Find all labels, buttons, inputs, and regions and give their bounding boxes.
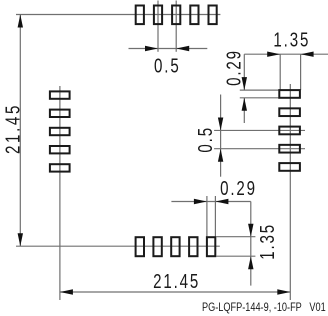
extension line 1.35 bottom lower [216, 255, 255, 257]
pad left 2 [50, 110, 70, 117]
centerline top pad row [16, 14, 220, 16]
arrow 0.29 bottom pointing right [194, 199, 207, 204]
pad right 5 [279, 163, 300, 171]
pad top 3 [172, 6, 180, 25]
extension line 0.29 top upper [240, 89, 279, 91]
dimension line 0.29 top lower segment [243, 98, 245, 123]
pad bottom 1 [136, 237, 144, 256]
centerline bottom pad row [16, 245, 220, 247]
extension line 0.29 bottom right [214, 196, 216, 236]
arrow 1.35 top pointing right [267, 52, 280, 57]
arrow 0.29 bottom pointing left [215, 199, 228, 204]
svg-text:0.29: 0.29 [220, 177, 257, 200]
dimension line 1.35 bottom right [250, 202, 252, 286]
extension line 0.29 bottom left [206, 196, 208, 236]
arrow 1.35 bottom down [248, 224, 253, 237]
svg-text:0.5: 0.5 [154, 54, 181, 77]
pad right 3 [279, 127, 300, 135]
dimension line 21.45 left [19, 15, 21, 247]
pad left 3 [50, 128, 70, 135]
arrow 21.45 bottom pointing left [60, 289, 73, 294]
centerline right pad column [289, 84, 291, 300]
label 1.35 top right [273, 28, 310, 51]
svg-text:21.45: 21.45 [153, 270, 200, 293]
extension line top pad 3 center [175, 1, 177, 52]
pad top 1 [136, 6, 144, 25]
pad top 2 [154, 6, 162, 25]
pad top 5 [209, 6, 217, 25]
footer part name PG-LQFP-144-9, -10-FP V01 [202, 301, 326, 315]
label 0.5 top [154, 54, 181, 77]
arrow 21.45 left down [18, 233, 23, 246]
svg-text:PG-LQFP-144-9, -10-FP V01: PG-LQFP-144-9, -10-FP V01 [202, 301, 326, 315]
dimension line 0.5 right [220, 95, 222, 177]
dimension line 21.45 bottom [60, 291, 290, 293]
pad left 4 [50, 146, 70, 153]
pad bottom 2 [153, 237, 161, 256]
pad left 5 [50, 164, 70, 171]
extension line right pad 3 center [214, 129, 305, 131]
pad top 4 [190, 6, 198, 25]
arrow 0.5 right up [218, 149, 223, 162]
label 0.5 right [194, 126, 217, 153]
pad bottom 5 [207, 237, 215, 256]
extension line 0.29 top lower [240, 97, 279, 99]
pad right 4 [279, 145, 300, 153]
extension line top pad 2 center [157, 1, 159, 52]
arrow 0.5 top pointing right [145, 46, 158, 51]
arrow 21.45 bottom pointing right [277, 289, 290, 294]
pad bottom 4 [189, 237, 197, 256]
label 0.29 bottom [220, 177, 257, 200]
dimension line 1.35 top right [244, 53, 328, 55]
svg-text:0.5: 0.5 [194, 126, 217, 153]
label 21.45 bottom [153, 270, 200, 293]
arrow 0.5 top pointing left [176, 46, 189, 51]
centerline left pad column [59, 86, 61, 300]
arrow 0.29 top down [242, 77, 247, 90]
svg-text:1.35: 1.35 [273, 28, 310, 51]
arrow 0.5 right down [218, 117, 223, 130]
svg-text:1.35: 1.35 [256, 223, 279, 260]
pad left 1 [50, 91, 70, 98]
svg-text:0.29: 0.29 [222, 49, 245, 86]
pad bottom 3 [171, 237, 179, 256]
arrow 1.35 bottom up [248, 256, 253, 269]
dimension line 0.29 bottom [171, 201, 250, 203]
extension line 1.35 bottom upper [216, 236, 255, 238]
dimension line 0.29 top upper segment [243, 54, 245, 90]
arrow 21.45 left up [18, 15, 23, 28]
label 0.29 top right [222, 49, 245, 86]
arrow 1.35 top pointing left [301, 52, 314, 57]
pad right 1 [279, 90, 300, 98]
dimension line 0.5 top [129, 48, 208, 50]
label 21.45 left [1, 103, 24, 154]
extension line 1.35 top left [279, 54, 281, 90]
svg-text:21.45: 21.45 [1, 103, 24, 154]
label 1.35 bottom right [256, 223, 279, 260]
extension line 1.35 top right [300, 54, 302, 90]
extension line right pad 4 center [214, 148, 305, 150]
arrow 0.29 top up [242, 98, 247, 111]
pad right 2 [279, 108, 300, 116]
